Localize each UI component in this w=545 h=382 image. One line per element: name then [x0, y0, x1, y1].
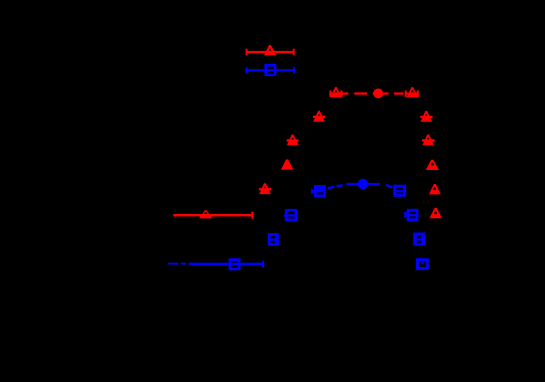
blue filled circle mid	[358, 179, 368, 189]
blue dashed line mid trio	[328, 185, 393, 189]
red open triangle left branch 2	[287, 135, 299, 146]
blue open square right branch 1	[404, 209, 418, 221]
blue open square mid-left	[311, 185, 326, 197]
red error bar of left top triangle	[329, 90, 348, 97]
red error bar of right top triangle	[405, 90, 419, 97]
red open triangle right branch 5	[429, 208, 442, 218]
legend entry 1 marker: open red triangle	[264, 45, 277, 55]
red open triangle data point right of top trio	[407, 87, 419, 97]
red open triangle left branch 4	[259, 183, 271, 194]
red open triangle wide-bin marker	[199, 210, 212, 218]
red open triangle data point left of top trio	[330, 87, 342, 97]
blue open square left branch 2	[268, 233, 279, 246]
red open triangle right branch 1	[420, 111, 432, 122]
red filled circle data point top middle	[373, 89, 383, 99]
red open triangle right branch 3	[426, 160, 439, 170]
blue open square wide-bin marker	[229, 258, 241, 270]
red open triangle left branch 1	[313, 111, 325, 122]
red wide-bin point: long bar with right cap	[173, 212, 253, 219]
blue circle horizontal error bar	[346, 183, 380, 185]
legend entry 1: red error bar with caps	[246, 49, 295, 56]
blue wide-bin point: dashes then bar with right cap	[168, 261, 264, 268]
blue open square left branch 1	[284, 209, 298, 221]
blue open square right branch 2	[413, 233, 425, 246]
blue open square right branch 3 with inner tick	[416, 258, 429, 270]
red circle horizontal error bar	[373, 92, 389, 94]
legend entry 2: blue error bar with caps	[246, 67, 296, 74]
blue open square mid-right	[393, 185, 406, 197]
legend entry 2: blue square marker	[264, 64, 276, 76]
red open triangle right branch 4	[429, 184, 441, 194]
red filled triangle left branch 3	[281, 159, 293, 169]
red open triangle right branch 2	[422, 135, 435, 146]
red dashed line through top trio	[354, 92, 403, 94]
